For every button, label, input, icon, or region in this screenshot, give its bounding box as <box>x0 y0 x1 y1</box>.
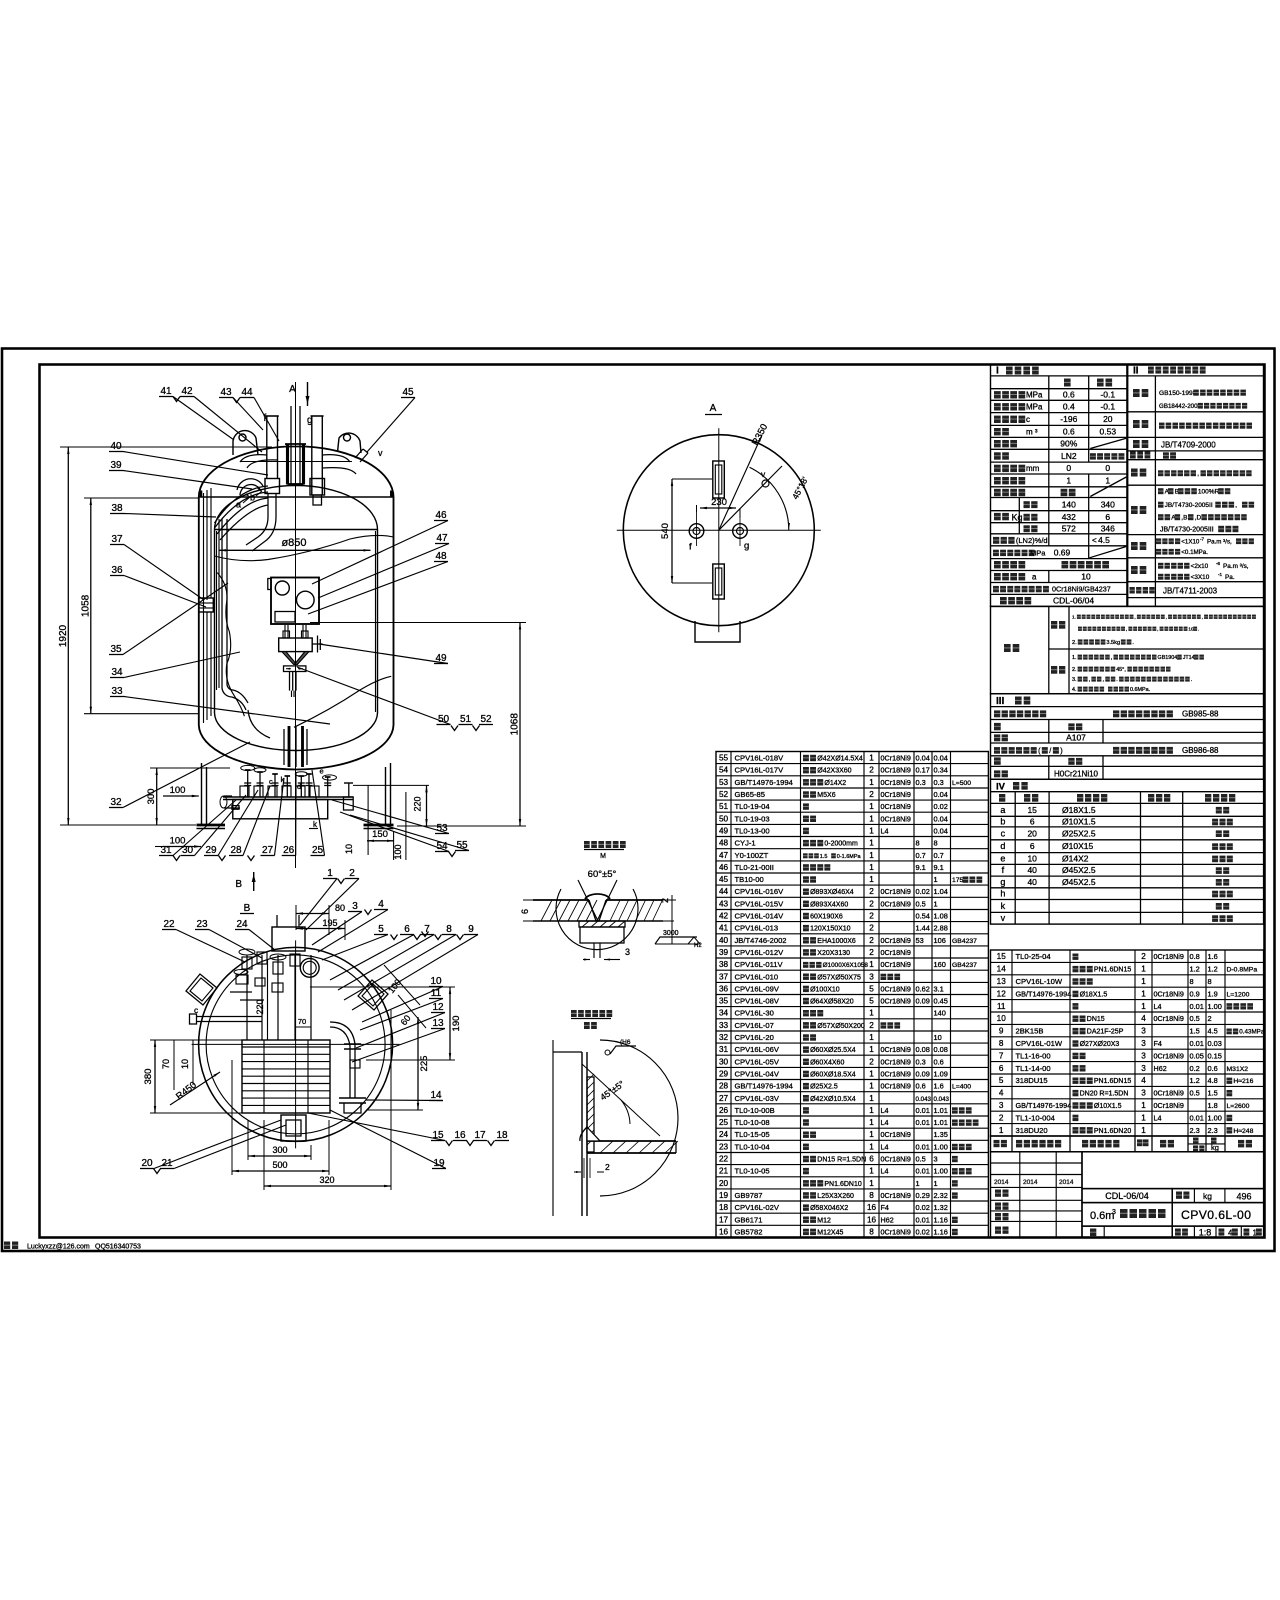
svg-text:PN1.6DN10: PN1.6DN10 <box>824 1181 861 1188</box>
table I column headers 内/夹层 <box>1064 379 1071 387</box>
table II tech条件 row <box>1133 420 1140 428</box>
III inner vessel material row <box>994 710 1000 717</box>
svg-text:Ø45X2.5: Ø45X2.5 <box>1062 865 1096 875</box>
svg-text:0.01: 0.01 <box>1190 1113 1204 1122</box>
svg-text:v: v <box>1001 913 1006 923</box>
svg-text:0.03: 0.03 <box>1208 1039 1222 1048</box>
base plate right <box>364 824 394 827</box>
svg-text:TL0-10-04: TL0-10-04 <box>735 1142 771 1151</box>
svg-text:0Cr18Ni9: 0Cr18Ni9 <box>881 887 911 896</box>
svg-text:8: 8 <box>869 1227 874 1236</box>
svg-text:Ø42X3X60: Ø42X3X60 <box>817 768 851 775</box>
svg-text:CPV16L-07: CPV16L-07 <box>735 1021 774 1030</box>
svg-text:0.02: 0.02 <box>916 1227 930 1236</box>
table I row 介质 <box>994 452 1001 459</box>
svg-text:GB985-88: GB985-88 <box>1182 710 1219 719</box>
svg-text:M5X6: M5X6 <box>817 792 835 799</box>
svg-text:Ø25X2.5: Ø25X2.5 <box>810 1084 838 1091</box>
A-A point v <box>762 480 769 487</box>
svg-text:DN15 R=1.5DN: DN15 R=1.5DN <box>817 1157 866 1164</box>
svg-text:46: 46 <box>435 510 447 521</box>
svg-text:18: 18 <box>719 1203 729 1212</box>
svg-text:L4: L4 <box>881 1106 889 1115</box>
svg-text:0Cr18Ni9: 0Cr18Ni9 <box>881 1070 911 1079</box>
svg-text:3.: 3. <box>1072 677 1077 683</box>
svg-text:1: 1 <box>999 1126 1004 1135</box>
A-A hole g <box>733 524 748 539</box>
svg-text:TL0-10-00B: TL0-10-00B <box>735 1106 775 1115</box>
svg-text:3: 3 <box>1141 1064 1146 1073</box>
svg-text:3.1: 3.1 <box>934 984 944 993</box>
svg-text:H62: H62 <box>881 1215 894 1224</box>
svg-text:1: 1 <box>869 839 874 848</box>
svg-text:50: 50 <box>719 814 729 823</box>
callout group zigzag marks <box>173 397 180 402</box>
svg-text:16: 16 <box>454 1130 466 1141</box>
svg-text:500: 500 <box>272 1160 287 1170</box>
svg-text:TL1-10-004: TL1-10-004 <box>1016 1113 1056 1122</box>
table II manufacture and inspection <box>1128 365 1264 607</box>
table I insulation row <box>994 561 1001 568</box>
III outer shell material row <box>994 747 1000 754</box>
svg-text:496: 496 <box>1236 1192 1251 1202</box>
svg-text:6: 6 <box>999 1064 1004 1073</box>
svg-text:10: 10 <box>344 844 354 854</box>
svg-text:300: 300 <box>272 1145 287 1155</box>
dim 1058 <box>90 498 92 714</box>
bottom center tube <box>289 672 291 691</box>
instrument box <box>271 578 319 625</box>
svg-text:2: 2 <box>869 924 874 933</box>
svg-text:1: 1 <box>869 802 874 811</box>
svg-text:(H6: (H6 <box>620 1039 631 1046</box>
svg-text:0.6: 0.6 <box>916 1082 926 1091</box>
svg-text:0.09: 0.09 <box>916 997 930 1006</box>
vaporizer fins <box>242 1046 330 1048</box>
svg-text:g: g <box>307 415 313 426</box>
weld detail 1 title <box>584 841 590 848</box>
svg-text:Ø18X1.5: Ø18X1.5 <box>1062 805 1096 815</box>
svg-text:3: 3 <box>1141 1027 1146 1036</box>
svg-text:25: 25 <box>312 845 324 856</box>
svg-text:Ø100X10: Ø100X10 <box>810 986 840 993</box>
svg-text:44: 44 <box>719 887 729 896</box>
title block drawing code CPV0.6L-00 <box>1172 1203 1263 1227</box>
svg-text:10: 10 <box>1027 854 1037 864</box>
III electrode row <box>994 734 1000 741</box>
svg-text:mm: mm <box>1026 464 1040 473</box>
svg-text:MPa: MPa <box>1026 403 1043 412</box>
bottom view inner circle <box>206 955 385 1134</box>
svg-text:c: c <box>1001 828 1006 838</box>
svg-text:-6: -6 <box>1216 561 1221 566</box>
svg-text:36: 36 <box>719 984 729 993</box>
svg-text:f: f <box>264 413 267 424</box>
svg-text:<1X10: <1X10 <box>1181 539 1200 546</box>
weld detail 2 vertical shell <box>581 1052 583 1216</box>
title block product name cell <box>1082 1203 1172 1227</box>
svg-text:31: 31 <box>719 1045 729 1054</box>
dim 380 bv <box>154 1040 156 1113</box>
svg-text:0.17: 0.17 <box>916 766 930 775</box>
svg-text:55: 55 <box>719 754 729 763</box>
svg-text:MPa: MPa <box>1026 391 1043 400</box>
svg-text:1: 1 <box>869 1167 874 1176</box>
svg-text:8: 8 <box>446 924 452 935</box>
svg-text:47: 47 <box>436 533 448 544</box>
svg-text:b: b <box>1000 817 1005 827</box>
svg-text:45: 45 <box>402 387 414 398</box>
svg-text:0Cr18Ni9: 0Cr18Ni9 <box>881 1045 911 1054</box>
svg-text:H≈248: H≈248 <box>1233 1128 1253 1135</box>
svg-text:1.2: 1.2 <box>1208 965 1218 974</box>
svg-text:0Cr18Ni9: 0Cr18Ni9 <box>881 814 911 823</box>
svg-text:1: 1 <box>1066 476 1071 486</box>
svg-text:14: 14 <box>997 965 1007 974</box>
svg-text:0Cr18Ni9: 0Cr18Ni9 <box>881 899 911 908</box>
svg-text:2: 2 <box>869 790 874 799</box>
svg-text:2.: 2. <box>1072 667 1077 673</box>
dim 1068 <box>310 622 526 624</box>
svg-text:3: 3 <box>1112 1209 1116 1216</box>
nozzle f elbow inside <box>240 455 267 462</box>
svg-text:Ø60XØ25.5X4: Ø60XØ25.5X4 <box>810 1047 856 1054</box>
svg-text:41: 41 <box>160 386 172 397</box>
svg-text:0Cr18Ni9: 0Cr18Ni9 <box>881 1155 911 1164</box>
svg-text:27: 27 <box>719 1094 729 1103</box>
svg-text:CPV16L-01W: CPV16L-01W <box>1016 1039 1063 1048</box>
svg-text:2: 2 <box>869 948 874 957</box>
valve cluster stems <box>247 770 249 797</box>
svg-text:Ø25X2.5: Ø25X2.5 <box>1062 828 1096 838</box>
signature labels <box>995 1190 1001 1197</box>
vessel centerline <box>295 382 297 868</box>
svg-text:0Cr18Ni9/GB4237: 0Cr18Ni9/GB4237 <box>1052 584 1111 593</box>
svg-text:JB/T4711-2003: JB/T4711-2003 <box>1163 587 1218 596</box>
svg-text:0.04: 0.04 <box>934 754 948 763</box>
svg-text:1: 1 <box>869 1142 874 1151</box>
svg-text:8: 8 <box>1190 977 1194 986</box>
svg-text:Ø10X1.5: Ø10X1.5 <box>1062 817 1096 827</box>
svg-text:1: 1 <box>869 1009 874 1018</box>
dim 225 <box>417 1017 419 1110</box>
table I weight Kg block <box>994 513 1001 520</box>
crossbar plate <box>284 666 306 672</box>
svg-text:1: 1 <box>869 1130 874 1139</box>
svg-text:<0.1MPa.: <0.1MPa. <box>1181 549 1208 556</box>
svg-text:PN1.6DN15: PN1.6DN15 <box>1094 967 1131 974</box>
top neck <box>286 444 289 485</box>
section IV nozzle table <box>991 779 1264 924</box>
svg-text:1.9: 1.9 <box>1208 989 1218 998</box>
svg-text:12: 12 <box>997 989 1007 998</box>
svg-text:.: . <box>1116 677 1118 683</box>
svg-text:0.4: 0.4 <box>1063 402 1075 412</box>
svg-text:6: 6 <box>1030 817 1035 827</box>
svg-text:1: 1 <box>869 1106 874 1115</box>
svg-text:3: 3 <box>1141 1089 1146 1098</box>
svg-text:3: 3 <box>1141 1039 1146 1048</box>
vessel outer shell <box>199 447 394 770</box>
svg-text:A107: A107 <box>1066 733 1086 743</box>
svg-text:GB4237: GB4237 <box>952 938 977 945</box>
svg-text:-0.1: -0.1 <box>1100 402 1115 412</box>
svg-text:4.5: 4.5 <box>1208 1027 1218 1036</box>
svg-text:0.9: 0.9 <box>1190 989 1200 998</box>
svg-text:L=400: L=400 <box>952 1084 971 1091</box>
svg-text:22: 22 <box>719 1155 729 1164</box>
svg-text:1.2: 1.2 <box>1190 965 1200 974</box>
svg-text:39: 39 <box>110 460 122 471</box>
lug reference line <box>240 461 352 463</box>
svg-text:4.5: 4.5 <box>1098 535 1110 545</box>
svg-text:20: 20 <box>141 1158 153 1169</box>
svg-text:CPV16L-04V: CPV16L-04V <box>735 1070 780 1079</box>
svg-text:1.16: 1.16 <box>934 1227 948 1236</box>
svg-text:10: 10 <box>1081 572 1091 582</box>
table II leak test row <box>1131 542 1138 550</box>
svg-text:14: 14 <box>430 1090 442 1101</box>
svg-text:2: 2 <box>349 868 355 879</box>
weld detail 2 angle lines <box>582 1064 660 1136</box>
svg-text:45: 45 <box>719 875 729 884</box>
nozzle g elbow inside <box>322 455 350 462</box>
watermark text bottom-left <box>4 1242 10 1250</box>
svg-text:I: I <box>996 366 999 377</box>
bottom view extra fittings <box>236 975 248 984</box>
svg-text:0.5: 0.5 <box>1190 1014 1200 1023</box>
title block scale row <box>1172 1226 1263 1237</box>
svg-text:0.01: 0.01 <box>916 1118 930 1127</box>
svg-text:h: h <box>1000 889 1005 899</box>
svg-text:,: , <box>1235 502 1237 509</box>
svg-text:LN2: LN2 <box>1061 451 1077 461</box>
svg-text:CPV16L-018V: CPV16L-018V <box>735 754 785 763</box>
svg-text:0.043: 0.043 <box>916 1096 932 1103</box>
svg-text:0Cr18Ni9: 0Cr18Ni9 <box>881 1191 911 1200</box>
svg-text:Pa.m ³/s,: Pa.m ³/s, <box>1223 563 1249 570</box>
svg-text:1: 1 <box>1141 965 1146 974</box>
svg-text:5: 5 <box>869 997 874 1006</box>
svg-text:-7: -7 <box>1200 537 1205 542</box>
svg-text:TL1-14-00: TL1-14-00 <box>1016 1064 1051 1073</box>
svg-text:21: 21 <box>719 1167 729 1176</box>
svg-text:d: d <box>1000 841 1005 851</box>
manifold left elbow <box>224 796 240 808</box>
svg-text:1: 1 <box>869 1082 874 1091</box>
svg-text:3: 3 <box>625 947 630 957</box>
svg-text:1: 1 <box>869 851 874 860</box>
svg-text:1920: 1920 <box>58 624 69 647</box>
svg-text:53: 53 <box>916 936 924 945</box>
svg-text:10: 10 <box>1188 627 1194 632</box>
svg-text:1: 1 <box>869 1118 874 1127</box>
svg-text:220: 220 <box>255 999 265 1014</box>
svg-text:30: 30 <box>182 845 194 856</box>
svg-text:0.34: 0.34 <box>934 766 948 775</box>
svg-text:1.5: 1.5 <box>1190 1027 1200 1036</box>
svg-text:0.08: 0.08 <box>934 1045 948 1054</box>
svg-text:340: 340 <box>1101 499 1115 509</box>
svg-text:-196: -196 <box>1060 414 1077 424</box>
svg-text:4: 4 <box>1141 1014 1146 1023</box>
base plate left <box>197 824 226 827</box>
svg-text:GB986-88: GB986-88 <box>1182 746 1219 755</box>
svg-text:48: 48 <box>435 551 447 562</box>
svg-text:45°,: 45°, <box>1116 667 1126 673</box>
svg-text:0.01: 0.01 <box>916 1215 930 1224</box>
svg-text:Pa.m ³/s,: Pa.m ³/s, <box>1207 539 1232 546</box>
svg-text:49: 49 <box>719 827 729 836</box>
svg-text:GB65-85: GB65-85 <box>735 790 765 799</box>
svg-text:15: 15 <box>997 952 1007 961</box>
bottom view valve stems <box>246 955 248 1040</box>
svg-text:H0Cr21Ni10: H0Cr21Ni10 <box>1054 770 1099 779</box>
svg-text:30: 30 <box>719 1057 729 1066</box>
notes sub-label manufacture <box>1051 666 1057 674</box>
svg-text:4.: 4. <box>1072 687 1077 693</box>
svg-text:140: 140 <box>1062 499 1076 509</box>
svg-text:0.01: 0.01 <box>1190 1002 1204 1011</box>
svg-text:51: 51 <box>719 802 729 811</box>
svg-text:100: 100 <box>393 844 403 859</box>
svg-text:Ø57XØ50X200: Ø57XØ50X200 <box>817 1023 865 1030</box>
svg-text:21: 21 <box>161 1158 173 1169</box>
svg-text:2: 2 <box>869 912 874 921</box>
svg-text:0.45: 0.45 <box>934 997 948 1006</box>
table II paint row <box>1130 587 1135 594</box>
svg-text:0.6: 0.6 <box>1208 1064 1218 1073</box>
svg-text:TL0-19-03: TL0-19-03 <box>735 814 770 823</box>
nozzle f pipe <box>266 416 268 479</box>
svg-text:m ³: m ³ <box>1026 428 1038 437</box>
svg-text:Ø58X046X2: Ø58X046X2 <box>810 1205 848 1212</box>
svg-text:DA21F-25P: DA21F-25P <box>1087 1029 1124 1036</box>
table I row 腐蚀裕量 <box>994 465 1001 472</box>
dim 300 bv <box>248 1155 311 1157</box>
svg-text:TL0-19-04: TL0-19-04 <box>735 802 771 811</box>
svg-text:GB18442-2001: GB18442-2001 <box>1159 403 1202 410</box>
lifting lug right <box>338 433 362 453</box>
svg-text:22: 22 <box>163 919 175 930</box>
svg-text:1: 1 <box>869 1094 874 1103</box>
svg-text:M31X2: M31X2 <box>1227 1066 1249 1073</box>
svg-text:0: 0 <box>1066 463 1071 473</box>
svg-text:F4: F4 <box>881 1203 889 1212</box>
svg-text:35: 35 <box>719 997 729 1006</box>
nozzle g pipe <box>311 416 313 495</box>
svg-text:0.02: 0.02 <box>916 1203 930 1212</box>
svg-text:31: 31 <box>160 845 172 856</box>
table I row 充装率 <box>994 440 1001 447</box>
svg-text:JB/T4746-2002: JB/T4746-2002 <box>735 936 787 945</box>
svg-text:29: 29 <box>205 845 217 856</box>
svg-text:Kg: Kg <box>1012 513 1023 523</box>
inner bottom head inner lines <box>248 710 270 738</box>
svg-text:1: 1 <box>916 1179 920 1188</box>
svg-text:1: 1 <box>869 875 874 884</box>
svg-text:,D: ,D <box>1195 515 1202 522</box>
svg-text:GB9787: GB9787 <box>735 1191 763 1200</box>
svg-text:2014: 2014 <box>1023 1179 1038 1186</box>
svg-text:0Cr18Ni9: 0Cr18Ni9 <box>881 1057 911 1066</box>
dim 80 <box>296 913 329 915</box>
svg-text:Ø893X4X60: Ø893X4X60 <box>810 901 848 908</box>
svg-text:F4: F4 <box>1154 1039 1162 1048</box>
svg-text:1.6: 1.6 <box>1208 952 1218 961</box>
svg-text:2014: 2014 <box>994 1179 1009 1186</box>
svg-text:70: 70 <box>298 1017 306 1026</box>
svg-text:0-1.6MPa: 0-1.6MPa <box>837 854 862 860</box>
svg-text:TL0-10-05: TL0-10-05 <box>735 1167 770 1176</box>
svg-text:0.04: 0.04 <box>934 814 948 823</box>
pressure regulator below box <box>279 638 313 652</box>
svg-text:0Cr18Ni9: 0Cr18Ni9 <box>1154 1089 1184 1098</box>
svg-text:8: 8 <box>934 839 938 848</box>
table I row 容积 <box>994 428 1001 435</box>
svg-text:3: 3 <box>869 972 874 981</box>
svg-text:TL0-10-08: TL0-10-08 <box>735 1118 770 1127</box>
svg-text:16: 16 <box>867 1215 877 1224</box>
svg-text:Ø14X2: Ø14X2 <box>824 780 846 787</box>
svg-text:1.44: 1.44 <box>916 924 930 933</box>
svg-text:1: 1 <box>869 1033 874 1042</box>
valve bodies on manifold <box>240 786 249 797</box>
svg-text:41: 41 <box>719 924 729 933</box>
svg-text:3: 3 <box>999 1101 1004 1110</box>
svg-text:b: b <box>250 493 255 503</box>
svg-text:CPV16L-012V: CPV16L-012V <box>735 948 785 957</box>
svg-text:1.35: 1.35 <box>934 1130 948 1139</box>
svg-text:1: 1 <box>1141 1002 1146 1011</box>
svg-text:1: 1 <box>934 1179 938 1188</box>
weld detail 2 title <box>571 1010 577 1017</box>
svg-text:1: 1 <box>1141 977 1146 986</box>
svg-text:MPa: MPa <box>1030 548 1046 557</box>
svg-text:100: 100 <box>170 785 186 796</box>
svg-text:0.04: 0.04 <box>934 827 948 836</box>
svg-text:160: 160 <box>934 960 946 969</box>
table II welding code row <box>1133 440 1140 448</box>
svg-text:v: v <box>378 448 383 458</box>
svg-text:20: 20 <box>719 1179 729 1188</box>
svg-text:CYJ-1: CYJ-1 <box>735 839 756 848</box>
svg-text:230: 230 <box>711 497 727 508</box>
svg-text:1: 1 <box>869 1070 874 1079</box>
svg-text:52: 52 <box>480 714 492 725</box>
break wavy line upper <box>215 535 394 560</box>
svg-text:TL1-16-00: TL1-16-00 <box>1016 1051 1051 1060</box>
svg-text:0.54: 0.54 <box>916 912 930 921</box>
svg-text:8: 8 <box>869 1191 874 1200</box>
svg-text:318DU20: 318DU20 <box>1016 1126 1048 1135</box>
dim extension top 1920 <box>60 446 272 448</box>
svg-text:1: 1 <box>1141 1126 1146 1135</box>
svg-text:<: < <box>1092 536 1097 545</box>
svg-text:17: 17 <box>719 1215 729 1224</box>
weld detail 2 bubble <box>600 1040 678 1196</box>
svg-text:1.32: 1.32 <box>934 1203 948 1212</box>
svg-text:GB/T14976-1994: GB/T14976-1994 <box>1016 989 1072 998</box>
svg-text:CPV0.6L-00: CPV0.6L-00 <box>1181 1208 1251 1222</box>
svg-text:1: 1 <box>869 1179 874 1188</box>
svg-text:10: 10 <box>997 1014 1007 1023</box>
svg-text:1: 1 <box>934 875 938 884</box>
svg-text:CPV16L-09V: CPV16L-09V <box>735 984 780 993</box>
svg-text:2: 2 <box>869 1057 874 1066</box>
svg-text:0.6: 0.6 <box>934 1057 944 1066</box>
svg-text:0.3: 0.3 <box>916 778 926 787</box>
